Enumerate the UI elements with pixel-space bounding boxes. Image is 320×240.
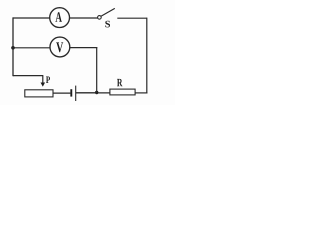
wire battery to resistor xyxy=(76,92,110,94)
wire bottom-left horizontal xyxy=(13,75,43,77)
battery cell short plate xyxy=(70,89,72,96)
resistor R body xyxy=(110,89,135,95)
rheostat P body xyxy=(25,90,53,97)
wire right vertical xyxy=(146,18,148,94)
label R xyxy=(117,79,123,86)
switch S xyxy=(98,8,115,27)
wire voltmeter left xyxy=(13,47,50,49)
wire top-left horizontal xyxy=(13,17,50,19)
rheostat slider arrow xyxy=(41,76,46,87)
wire bottom-right to resistor xyxy=(135,92,147,94)
wire voltmeter branch vertical xyxy=(96,47,98,92)
ammeter A xyxy=(50,8,70,28)
wire switch fixed contact to top-right corner xyxy=(117,17,147,19)
node junction left xyxy=(11,46,15,50)
voltmeter V xyxy=(50,37,70,57)
node junction bottom xyxy=(95,91,98,94)
wire battery right xyxy=(76,92,97,94)
wire voltmeter to branch corner xyxy=(70,47,98,49)
label P xyxy=(46,77,50,84)
wire ammeter to switch xyxy=(70,17,98,19)
wire rheostat to battery xyxy=(53,92,70,94)
battery cell long plate xyxy=(75,86,77,101)
wire left vertical xyxy=(12,17,14,76)
